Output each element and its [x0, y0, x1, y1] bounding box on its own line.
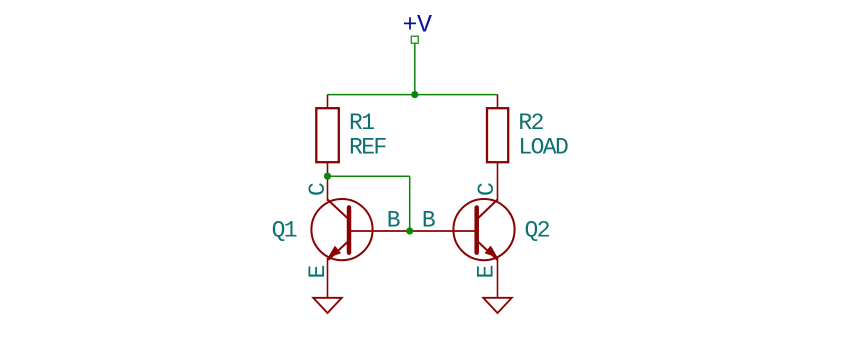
ground symbol GND1	[313, 298, 342, 313]
svg-text:+V: +V	[403, 10, 433, 39]
svg-text:REF: REF	[349, 135, 386, 161]
svg-text:Q2: Q2	[525, 218, 550, 244]
svg-text:C: C	[305, 183, 331, 196]
resistor R2 bottom pin / Q2 collector pin	[497, 162, 499, 201]
wire down to base node (vertical)	[409, 176, 411, 231]
svg-text:R2: R2	[518, 110, 543, 136]
svg-text:R1: R1	[349, 110, 374, 136]
wire top horizontal rail	[328, 94, 498, 96]
junction node B	[406, 227, 413, 234]
transistor Q1 emitter pin	[327, 258, 329, 298]
wire base Q1 to base Q2	[349, 230, 477, 232]
resistor R1 top pin	[327, 95, 329, 109]
transistor Q2 emitter pin	[497, 258, 499, 298]
svg-text:B: B	[422, 208, 435, 234]
svg-text:B: B	[387, 208, 400, 234]
resistor R1 bottom pin	[327, 162, 329, 176]
resistor R2 top pin	[497, 95, 499, 109]
junction top rail	[411, 91, 418, 98]
svg-text:Q1: Q1	[272, 218, 297, 244]
svg-text:LOAD: LOAD	[518, 135, 568, 161]
transistor Q1	[311, 199, 372, 260]
wire +V vertical drop	[414, 43, 416, 94]
junction node collector Q1	[324, 173, 331, 180]
transistor Q1 collector pin	[327, 176, 329, 201]
power port +V square pin marker	[411, 36, 418, 43]
ground symbol GND2	[483, 298, 512, 313]
wire from R1 bottom to base column (horizontal)	[328, 175, 410, 177]
resistor R1	[316, 108, 339, 162]
svg-text:C: C	[474, 183, 500, 196]
svg-text:E: E	[473, 266, 499, 279]
resistor R2	[487, 108, 508, 162]
transistor Q2	[453, 199, 514, 260]
